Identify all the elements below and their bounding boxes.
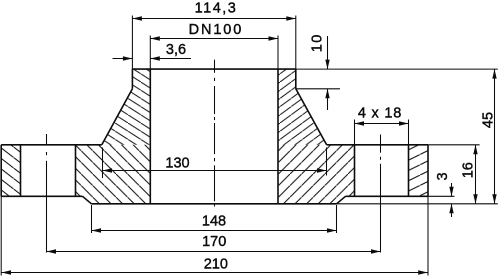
dimension line 45 xyxy=(494,69,496,204)
svg-text:3: 3 xyxy=(435,172,451,180)
extension line 3/16/45 bottom (face bottom extended) xyxy=(337,203,498,205)
svg-text:3,6: 3,6 xyxy=(166,42,186,58)
extension line 3 top (flange bottom extended) xyxy=(428,195,454,197)
arrow 16 top xyxy=(473,145,477,155)
bolt hole wall left-inner xyxy=(75,145,77,197)
dimension line 4x18 xyxy=(355,123,409,125)
extension line 130 left xyxy=(102,148,104,179)
arrow 148 left xyxy=(92,228,102,232)
raised face bottom xyxy=(91,203,336,205)
neck outer wall right xyxy=(295,69,297,89)
extension line 4x18 right xyxy=(408,120,410,145)
svg-text:148: 148 xyxy=(202,213,226,229)
dimension line 210 xyxy=(2,272,428,274)
dimension 3 arrow top xyxy=(451,183,453,196)
extension line 148 left xyxy=(91,205,93,233)
hub cone slope right xyxy=(296,89,327,145)
arrow DN100 left xyxy=(150,36,160,40)
extension line 130 right xyxy=(326,148,328,176)
dimension line 148 xyxy=(92,230,337,232)
flange top right xyxy=(327,144,428,146)
extension line 16 top (flange top extended) xyxy=(428,144,480,146)
raised face chamfer left xyxy=(83,196,92,204)
dimension line 16 xyxy=(475,145,477,204)
flange bottom right xyxy=(346,195,429,197)
raised face chamfer right xyxy=(337,196,346,204)
hatch left hub cone xyxy=(102,69,151,145)
bolt hole wall right-inner xyxy=(354,145,356,197)
arrow 148 right xyxy=(327,228,337,232)
dimension leader 3,6 right xyxy=(150,58,191,60)
extension line 114,3 right xyxy=(295,16,297,70)
neck top edge xyxy=(132,68,295,70)
dimension line 130 xyxy=(103,170,327,172)
arrow 130 left xyxy=(103,168,113,172)
dimension 10 arrow bottom xyxy=(327,89,329,110)
hatch right rim band xyxy=(409,145,429,197)
hub cone slope left xyxy=(102,89,133,145)
arrow 3,6 right xyxy=(150,56,160,60)
extension line 4x18 left xyxy=(354,120,356,145)
svg-text:210: 210 xyxy=(204,257,228,273)
flange top left xyxy=(1,144,102,146)
bolt hole centerline left xyxy=(46,134,48,253)
extension line 10-bottom (slope start extended) xyxy=(296,88,340,90)
svg-text:45: 45 xyxy=(481,112,497,128)
flange bottom left xyxy=(1,195,82,197)
svg-text:DN100: DN100 xyxy=(189,22,244,38)
extension line 210 right (flange edge extended) xyxy=(427,196,429,275)
extension line DN100 left xyxy=(149,36,151,70)
bolt hole centerline right xyxy=(380,135,382,253)
dimension 10 arrow top xyxy=(327,36,329,69)
extension line 114,3 left xyxy=(131,16,133,70)
arrow 114,3 left xyxy=(132,16,142,20)
arrow DN100 right xyxy=(269,36,279,40)
bolt hole wall right-outer xyxy=(408,145,410,197)
svg-text:170: 170 xyxy=(202,234,226,250)
hatch right flange mid section xyxy=(278,145,355,204)
bore wall left xyxy=(149,69,151,204)
svg-text:114,3: 114,3 xyxy=(195,1,238,17)
arrow 210 right xyxy=(418,270,428,274)
svg-text:130: 130 xyxy=(165,156,189,172)
dimension line DN100 xyxy=(150,38,278,40)
flange outer edge left xyxy=(0,145,2,197)
arrow 170 left xyxy=(47,249,57,253)
extension line 210 left (flange edge extended) xyxy=(0,196,2,275)
svg-text:4 x 18: 4 x 18 xyxy=(358,106,402,122)
neck outer wall left xyxy=(131,69,133,89)
svg-text:10: 10 xyxy=(310,33,326,52)
arrow 3,6 left xyxy=(123,56,132,60)
arrow 4x18 right xyxy=(399,121,409,125)
hatch left rim band xyxy=(1,145,20,197)
flange outer edge right xyxy=(427,145,429,197)
hatch right hub cone xyxy=(278,69,327,145)
arrow 16 bottom xyxy=(473,194,477,204)
arrow 130 right xyxy=(317,168,327,172)
dimension leader 3,6 left xyxy=(113,58,133,60)
main centerline xyxy=(214,60,216,207)
dimension line 170 xyxy=(47,251,381,253)
arrow 4x18 left xyxy=(355,121,365,125)
bolt hole wall left-outer xyxy=(20,145,22,197)
arrow 45 top xyxy=(492,69,496,79)
arrow 210 left xyxy=(2,270,12,274)
arrow 45 bottom xyxy=(492,194,496,204)
arrow 114,3 right xyxy=(286,16,296,20)
dimension 3 arrow bottom xyxy=(451,204,453,217)
hatch left flange mid section xyxy=(76,145,151,204)
svg-text:16: 16 xyxy=(460,162,476,178)
extension line DN100 right xyxy=(277,36,279,70)
bore wall right xyxy=(277,69,279,204)
arrow 170 right xyxy=(371,249,381,253)
extension line 148 right xyxy=(336,205,338,233)
dimension line 114,3 xyxy=(132,18,295,20)
extension line 10-top / 45-top (neck top extended) xyxy=(296,68,498,70)
